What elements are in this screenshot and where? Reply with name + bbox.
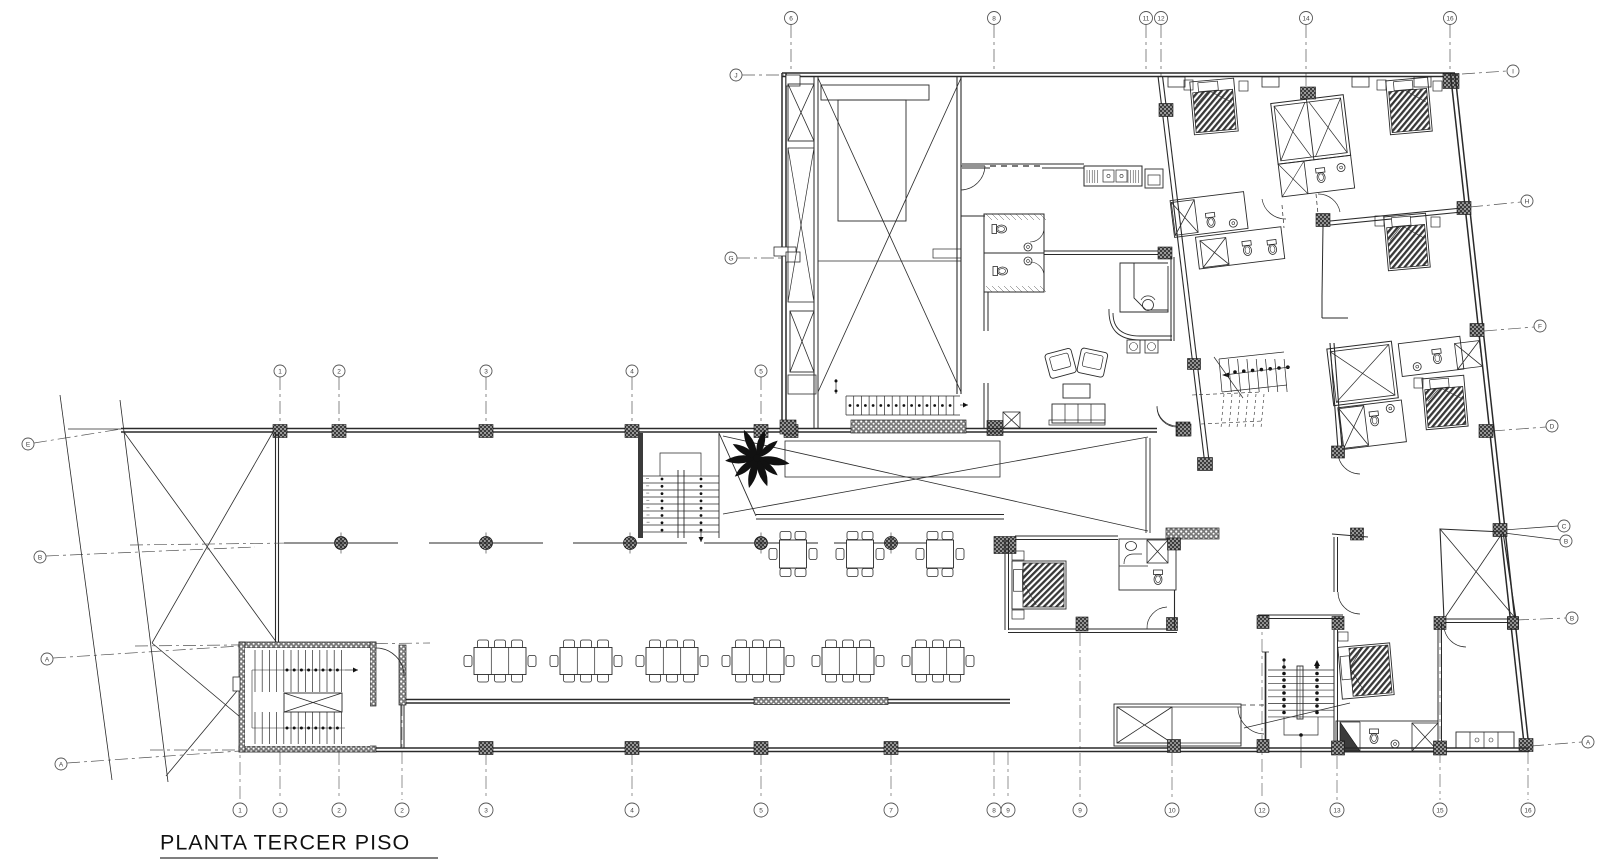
svg-text:B: B xyxy=(38,554,42,561)
svg-text:I: I xyxy=(1512,68,1514,75)
grid line 16 xyxy=(1449,25,1451,73)
grid letter I right xyxy=(1507,65,1519,77)
grid letter D right xyxy=(1546,420,1558,432)
strip elevator box 2 xyxy=(790,311,814,372)
stair X room mid-right xyxy=(1327,341,1398,405)
mid-right left wall xyxy=(1330,343,1338,449)
bed3 side boxes xyxy=(1375,216,1384,226)
west closet block xyxy=(1114,704,1241,746)
stairwell left door notch xyxy=(233,677,240,691)
hall mid line xyxy=(818,260,961,262)
kitchen appliance xyxy=(1145,169,1163,188)
grid letter B right xyxy=(1560,535,1572,547)
dash-dot A2 line segment xyxy=(150,749,240,751)
door arc stairwell west xyxy=(1238,707,1264,734)
svg-text:1: 1 xyxy=(278,368,282,375)
trapezoid X brace lower xyxy=(152,643,277,748)
stair treads lower flight xyxy=(254,712,256,744)
bed 3 right xyxy=(1384,213,1431,270)
column left wall upper xyxy=(1159,104,1173,117)
hall big X diagonal 2 xyxy=(818,78,961,392)
svg-text:5: 5 xyxy=(759,368,763,375)
svg-text:7: 7 xyxy=(889,807,893,814)
stair center rail xyxy=(1297,666,1303,719)
svg-text:G: G xyxy=(728,255,733,262)
sink bottom bath xyxy=(1391,740,1399,748)
round column 4 xyxy=(755,537,768,550)
left trapezoid property line outer xyxy=(60,395,112,780)
upper stairwell treads xyxy=(643,475,719,477)
bed4 pillow boxes xyxy=(1414,378,1423,388)
door arc mid bedroom xyxy=(1147,607,1167,629)
bottom grid bubbles xyxy=(239,642,241,800)
stairwell interior floor xyxy=(245,648,370,746)
toilet bottom bath xyxy=(1370,729,1379,744)
column at 995 top wall xyxy=(987,421,1003,436)
window ticks top wall xyxy=(1168,77,1185,87)
corridor door arcs top-right xyxy=(1262,199,1286,219)
grid bubble 8 xyxy=(988,12,1001,25)
column hall bottom left xyxy=(780,420,796,434)
svg-text:13: 13 xyxy=(1333,807,1341,814)
mid wall with round columns xyxy=(284,542,398,544)
table6 at 758 xyxy=(736,640,747,648)
bedroom right wall xyxy=(1174,590,1176,629)
corridor dashed jambs xyxy=(1282,205,1284,228)
stair dots row xyxy=(1233,370,1237,374)
bathroom D lower xyxy=(1338,400,1407,449)
upper stairwell dots xyxy=(661,478,664,481)
grid letter G xyxy=(725,252,737,264)
mid bedroom (9-10) walls xyxy=(1015,535,1118,537)
trapezoid X brace upper xyxy=(124,432,277,643)
stair dots xyxy=(1282,665,1286,669)
door arc mid-right xyxy=(1338,452,1360,474)
svg-text:8: 8 xyxy=(992,15,996,22)
svg-text:4: 4 xyxy=(630,807,634,814)
svg-text:5: 5 xyxy=(759,807,763,814)
hall right wall window ticks xyxy=(933,249,961,258)
svg-text:2: 2 xyxy=(337,807,341,814)
svg-text:H: H xyxy=(1525,198,1530,205)
wall above lounge xyxy=(983,383,985,428)
stair diagonal cut xyxy=(1214,357,1243,398)
upper stairwell down arrow xyxy=(700,530,702,542)
table6 at 672 xyxy=(650,640,661,648)
core top column xyxy=(1301,87,1316,99)
hall stairs treads xyxy=(845,396,847,415)
svg-text:9: 9 xyxy=(1078,807,1082,814)
grid letter A right xyxy=(1582,736,1594,748)
corridor inner rect xyxy=(785,441,1000,477)
corridor X area outline xyxy=(719,433,756,516)
column corridor mid xyxy=(1158,247,1172,259)
mid bathrooms block B xyxy=(1195,227,1284,269)
grid letter B left xyxy=(34,551,46,563)
columns bottom wall xyxy=(1332,741,1345,755)
closet X bottom bath xyxy=(1412,723,1438,751)
grid letter C right xyxy=(1558,520,1570,532)
title underline xyxy=(160,857,438,859)
svg-text:9: 9 xyxy=(1006,807,1010,814)
svg-text:C: C xyxy=(1562,523,1567,530)
closet X F xyxy=(1455,341,1483,370)
corner column 16 xyxy=(1443,74,1459,89)
dash-dot A line through trapezoid xyxy=(135,643,430,646)
svg-text:1: 1 xyxy=(278,807,282,814)
svg-text:16: 16 xyxy=(1524,807,1532,814)
round column 5 xyxy=(885,537,898,550)
trapezoid top edge xyxy=(68,428,121,430)
grid letter A2 left xyxy=(55,758,67,770)
grid letter F right xyxy=(1534,320,1546,332)
columns under NE room xyxy=(1434,617,1446,630)
svg-text:11: 11 xyxy=(1143,15,1150,22)
grid bubble 11 xyxy=(1140,12,1153,25)
coffee table xyxy=(1063,384,1090,398)
bed mid bedroom xyxy=(1012,561,1066,609)
stipple wall right of corridor xyxy=(1166,528,1219,539)
svg-text:2: 2 xyxy=(400,807,404,814)
round column 1 xyxy=(335,537,348,550)
hall strip inner wall xyxy=(813,77,815,428)
bottom bathroom xyxy=(1336,721,1438,752)
columns west closet xyxy=(1168,740,1181,753)
door arc bottom-left wall xyxy=(1338,592,1360,614)
table6 at 848 xyxy=(826,640,837,648)
stair treads upper flight xyxy=(254,650,256,692)
bed 4 xyxy=(1422,375,1468,429)
stair guide lines and dots xyxy=(252,669,345,671)
bottom-right inner wall vertical xyxy=(1437,622,1439,748)
stipple band on inner bottom wall xyxy=(754,698,888,705)
upper stairwell U guide xyxy=(660,453,701,476)
column NE room xyxy=(1351,528,1364,540)
stair treads bottom stairwell xyxy=(1268,669,1334,671)
svg-text:3: 3 xyxy=(484,368,488,375)
lower-left terrace wall xyxy=(400,705,402,748)
column corridor door xyxy=(1177,424,1191,436)
strip tall X xyxy=(788,148,814,302)
bed 5 bottom-right xyxy=(1338,643,1394,699)
hall right door opening xyxy=(961,165,985,167)
grid line 14 xyxy=(1305,25,1307,90)
desk chair xyxy=(1143,300,1154,311)
mid bathrooms block A xyxy=(1170,192,1248,238)
right outer property wall xyxy=(1455,74,1529,748)
upper stairwell left wall xyxy=(638,433,643,538)
G line wall tick xyxy=(774,247,796,256)
stairwell left wall xyxy=(1265,652,1267,741)
svg-text:16: 16 xyxy=(1446,15,1454,22)
wall below divider xyxy=(1322,226,1323,296)
dining room inner bottom wall xyxy=(402,699,1010,701)
svg-text:PLANTA TERCER PISO: PLANTA TERCER PISO xyxy=(160,831,410,855)
lounge-corridor wall xyxy=(1170,257,1172,341)
trapezoid verticals xyxy=(275,432,277,643)
kitchen bottom-right xyxy=(1456,732,1514,748)
hatched corner column corridor xyxy=(994,537,1016,554)
corridor right wall xyxy=(1145,438,1147,533)
wall right of stairwell with door xyxy=(399,645,406,705)
svg-text:J: J xyxy=(734,72,737,79)
grid letter J xyxy=(730,69,742,81)
table4 at 793 xyxy=(780,532,791,540)
svg-text:D: D xyxy=(1550,423,1555,430)
corridor big X xyxy=(723,436,1148,531)
wall right rooms divider xyxy=(1320,208,1462,222)
table6 at 500 xyxy=(478,640,489,648)
svg-text:3: 3 xyxy=(484,807,488,814)
upper stairwell center rail xyxy=(677,470,679,538)
bathroom F upper xyxy=(1398,336,1464,376)
NE X room bottom-right xyxy=(1440,529,1516,619)
mid bath shower xyxy=(1124,554,1142,564)
lounge door arc xyxy=(1157,407,1177,427)
strip elevator box 1 xyxy=(788,84,814,141)
center stairwell bottom xyxy=(1258,614,1343,616)
mid bath sink xyxy=(1126,542,1137,551)
hall top wall xyxy=(782,72,1159,74)
column at 1181 lounge wall xyxy=(1176,422,1190,436)
svg-text:E: E xyxy=(26,441,31,448)
svg-text:A: A xyxy=(45,656,50,663)
table4 at 860 xyxy=(847,532,858,540)
bottom-right left wall upper xyxy=(1333,537,1335,592)
corridor stair NE of lounge - solid flight xyxy=(1219,359,1222,392)
top-right block top wall xyxy=(1159,72,1455,74)
round column 3 xyxy=(624,537,637,550)
svg-text:10: 10 xyxy=(1168,807,1176,814)
grid bubble 6 xyxy=(785,12,798,25)
columns on bottom outer wall xyxy=(479,742,493,755)
columns on top wall xyxy=(273,425,287,438)
svg-text:F: F xyxy=(1538,323,1542,330)
bed 2 top-right xyxy=(1386,77,1433,134)
palm plant xyxy=(725,428,790,489)
east room door arcs right of lounge xyxy=(1157,406,1177,426)
grid bubbles 1-5 above left wing xyxy=(279,377,281,428)
bottom-right bottom wall xyxy=(1334,747,1529,749)
svg-text:B: B xyxy=(1570,615,1574,622)
stairwell hatched walls xyxy=(239,642,376,648)
hall right wall xyxy=(956,77,958,394)
sofa xyxy=(1052,404,1105,423)
stair central landing with X xyxy=(284,693,342,712)
bed1 side boxes xyxy=(1184,80,1193,90)
wall segment left of NE room xyxy=(1332,534,1368,537)
door arc dining entry xyxy=(376,648,404,676)
grid letter A left xyxy=(41,653,53,665)
left trapezoid property line inner xyxy=(120,400,168,782)
svg-text:1: 1 xyxy=(238,807,242,814)
hall big X diagonal 1 xyxy=(818,78,961,392)
dashed lower flight xyxy=(1221,394,1224,428)
svg-text:12: 12 xyxy=(1157,15,1165,22)
core bathroom xyxy=(1278,155,1354,197)
toilet wc2 xyxy=(993,267,1008,276)
armchair 1 xyxy=(1044,348,1077,379)
column divider left xyxy=(1316,214,1330,227)
wc doors xyxy=(1030,228,1044,242)
kitchen counter xyxy=(1084,166,1142,186)
svg-text:2: 2 xyxy=(337,368,341,375)
grid line 6 (vertical dash-dot) xyxy=(790,25,792,73)
stair-elevator core xyxy=(1271,95,1355,197)
armchair 2 xyxy=(1077,348,1109,378)
hall stairs arrow xyxy=(960,404,968,406)
mid bathroom walls xyxy=(1119,539,1176,590)
table6 at 586 xyxy=(564,640,575,648)
stair arrow xyxy=(345,669,358,671)
stipple band hall bottom wall xyxy=(851,420,966,433)
door arc NE room entry xyxy=(1444,625,1466,647)
table4 at 940 xyxy=(927,532,938,540)
corridor mid wall xyxy=(1044,250,1159,252)
hall top band xyxy=(821,85,929,100)
wall under NE room xyxy=(1442,618,1516,620)
upper stairwell right boundary xyxy=(718,433,720,538)
svg-text:B: B xyxy=(1564,538,1568,545)
round column 2 xyxy=(480,537,493,550)
J line wall tick xyxy=(786,75,800,86)
left wing top wall xyxy=(121,428,966,430)
bottom outer wall xyxy=(240,747,1345,749)
dashed connector west xyxy=(1241,704,1264,706)
grid bubble 16 xyxy=(1444,12,1457,25)
column mid-right xyxy=(1332,446,1345,458)
svg-text:8: 8 xyxy=(992,807,996,814)
hall left outer wall xyxy=(781,73,783,428)
wc sinks xyxy=(1024,243,1032,251)
grid line 12 xyxy=(1160,25,1162,76)
svg-text:14: 14 xyxy=(1302,15,1310,22)
grid letter B2 right xyxy=(1566,612,1578,624)
bed room left wall xyxy=(1333,630,1335,741)
bed5 boxes xyxy=(1338,632,1348,641)
grid letter E xyxy=(22,438,34,450)
svg-text:A: A xyxy=(1586,739,1591,746)
svg-text:A: A xyxy=(59,761,64,768)
svg-text:6: 6 xyxy=(789,15,793,22)
dash-dot B line through trapezoid xyxy=(130,543,290,545)
hall stair entry marks xyxy=(835,379,837,394)
grid bubble 12 xyxy=(1155,12,1168,25)
stair up arrow xyxy=(1316,662,1318,667)
mid bath closet xyxy=(1147,540,1168,563)
grid letter H right xyxy=(1521,195,1533,207)
bathroom hatch walls xyxy=(986,214,992,220)
bed2 side boxes xyxy=(1377,80,1386,90)
stair small labels xyxy=(646,478,649,479)
columns on right property wall xyxy=(1457,202,1471,215)
stair top entry marks xyxy=(1283,659,1285,667)
stair left arrow xyxy=(1222,373,1229,378)
column on skew wall xyxy=(1188,359,1201,370)
hall stairs rail dots xyxy=(849,404,852,407)
column left wall lower xyxy=(1198,458,1213,471)
office desk L xyxy=(1120,263,1168,312)
stools xyxy=(1127,340,1140,353)
left wing top wall continuation under lounge xyxy=(966,428,1157,430)
small closet X on wall xyxy=(1003,412,1020,428)
grid line 8 xyxy=(993,25,995,73)
svg-text:4: 4 xyxy=(630,368,634,375)
bed side tables xyxy=(1012,551,1024,560)
reception counter curve xyxy=(1113,313,1172,336)
shower triangle xyxy=(1340,722,1360,751)
bed 1 top-left xyxy=(1190,78,1238,135)
L corner wall xyxy=(1321,296,1323,318)
grid line 11 xyxy=(1145,25,1147,73)
wall below bathrooms xyxy=(983,292,985,331)
mid bath toilet xyxy=(1154,570,1163,585)
central bathrooms block xyxy=(984,214,1044,292)
table6 at 938 xyxy=(916,640,927,648)
stair diagonal cut line xyxy=(1244,703,1350,728)
svg-text:15: 15 xyxy=(1436,807,1444,814)
kitchen corridor wall xyxy=(962,163,1084,165)
top-right block left wall xyxy=(1158,76,1205,465)
hall inner room xyxy=(838,100,906,221)
toilet wc1 xyxy=(992,225,1007,234)
column below door xyxy=(1332,617,1344,630)
strip small box xyxy=(788,375,816,394)
lounge bottom wall xyxy=(966,428,1157,430)
stair bottom U guide xyxy=(1284,717,1318,735)
svg-text:12: 12 xyxy=(1258,807,1266,814)
grid bubble 14 xyxy=(1300,12,1313,25)
column mid bath xyxy=(1168,538,1181,550)
